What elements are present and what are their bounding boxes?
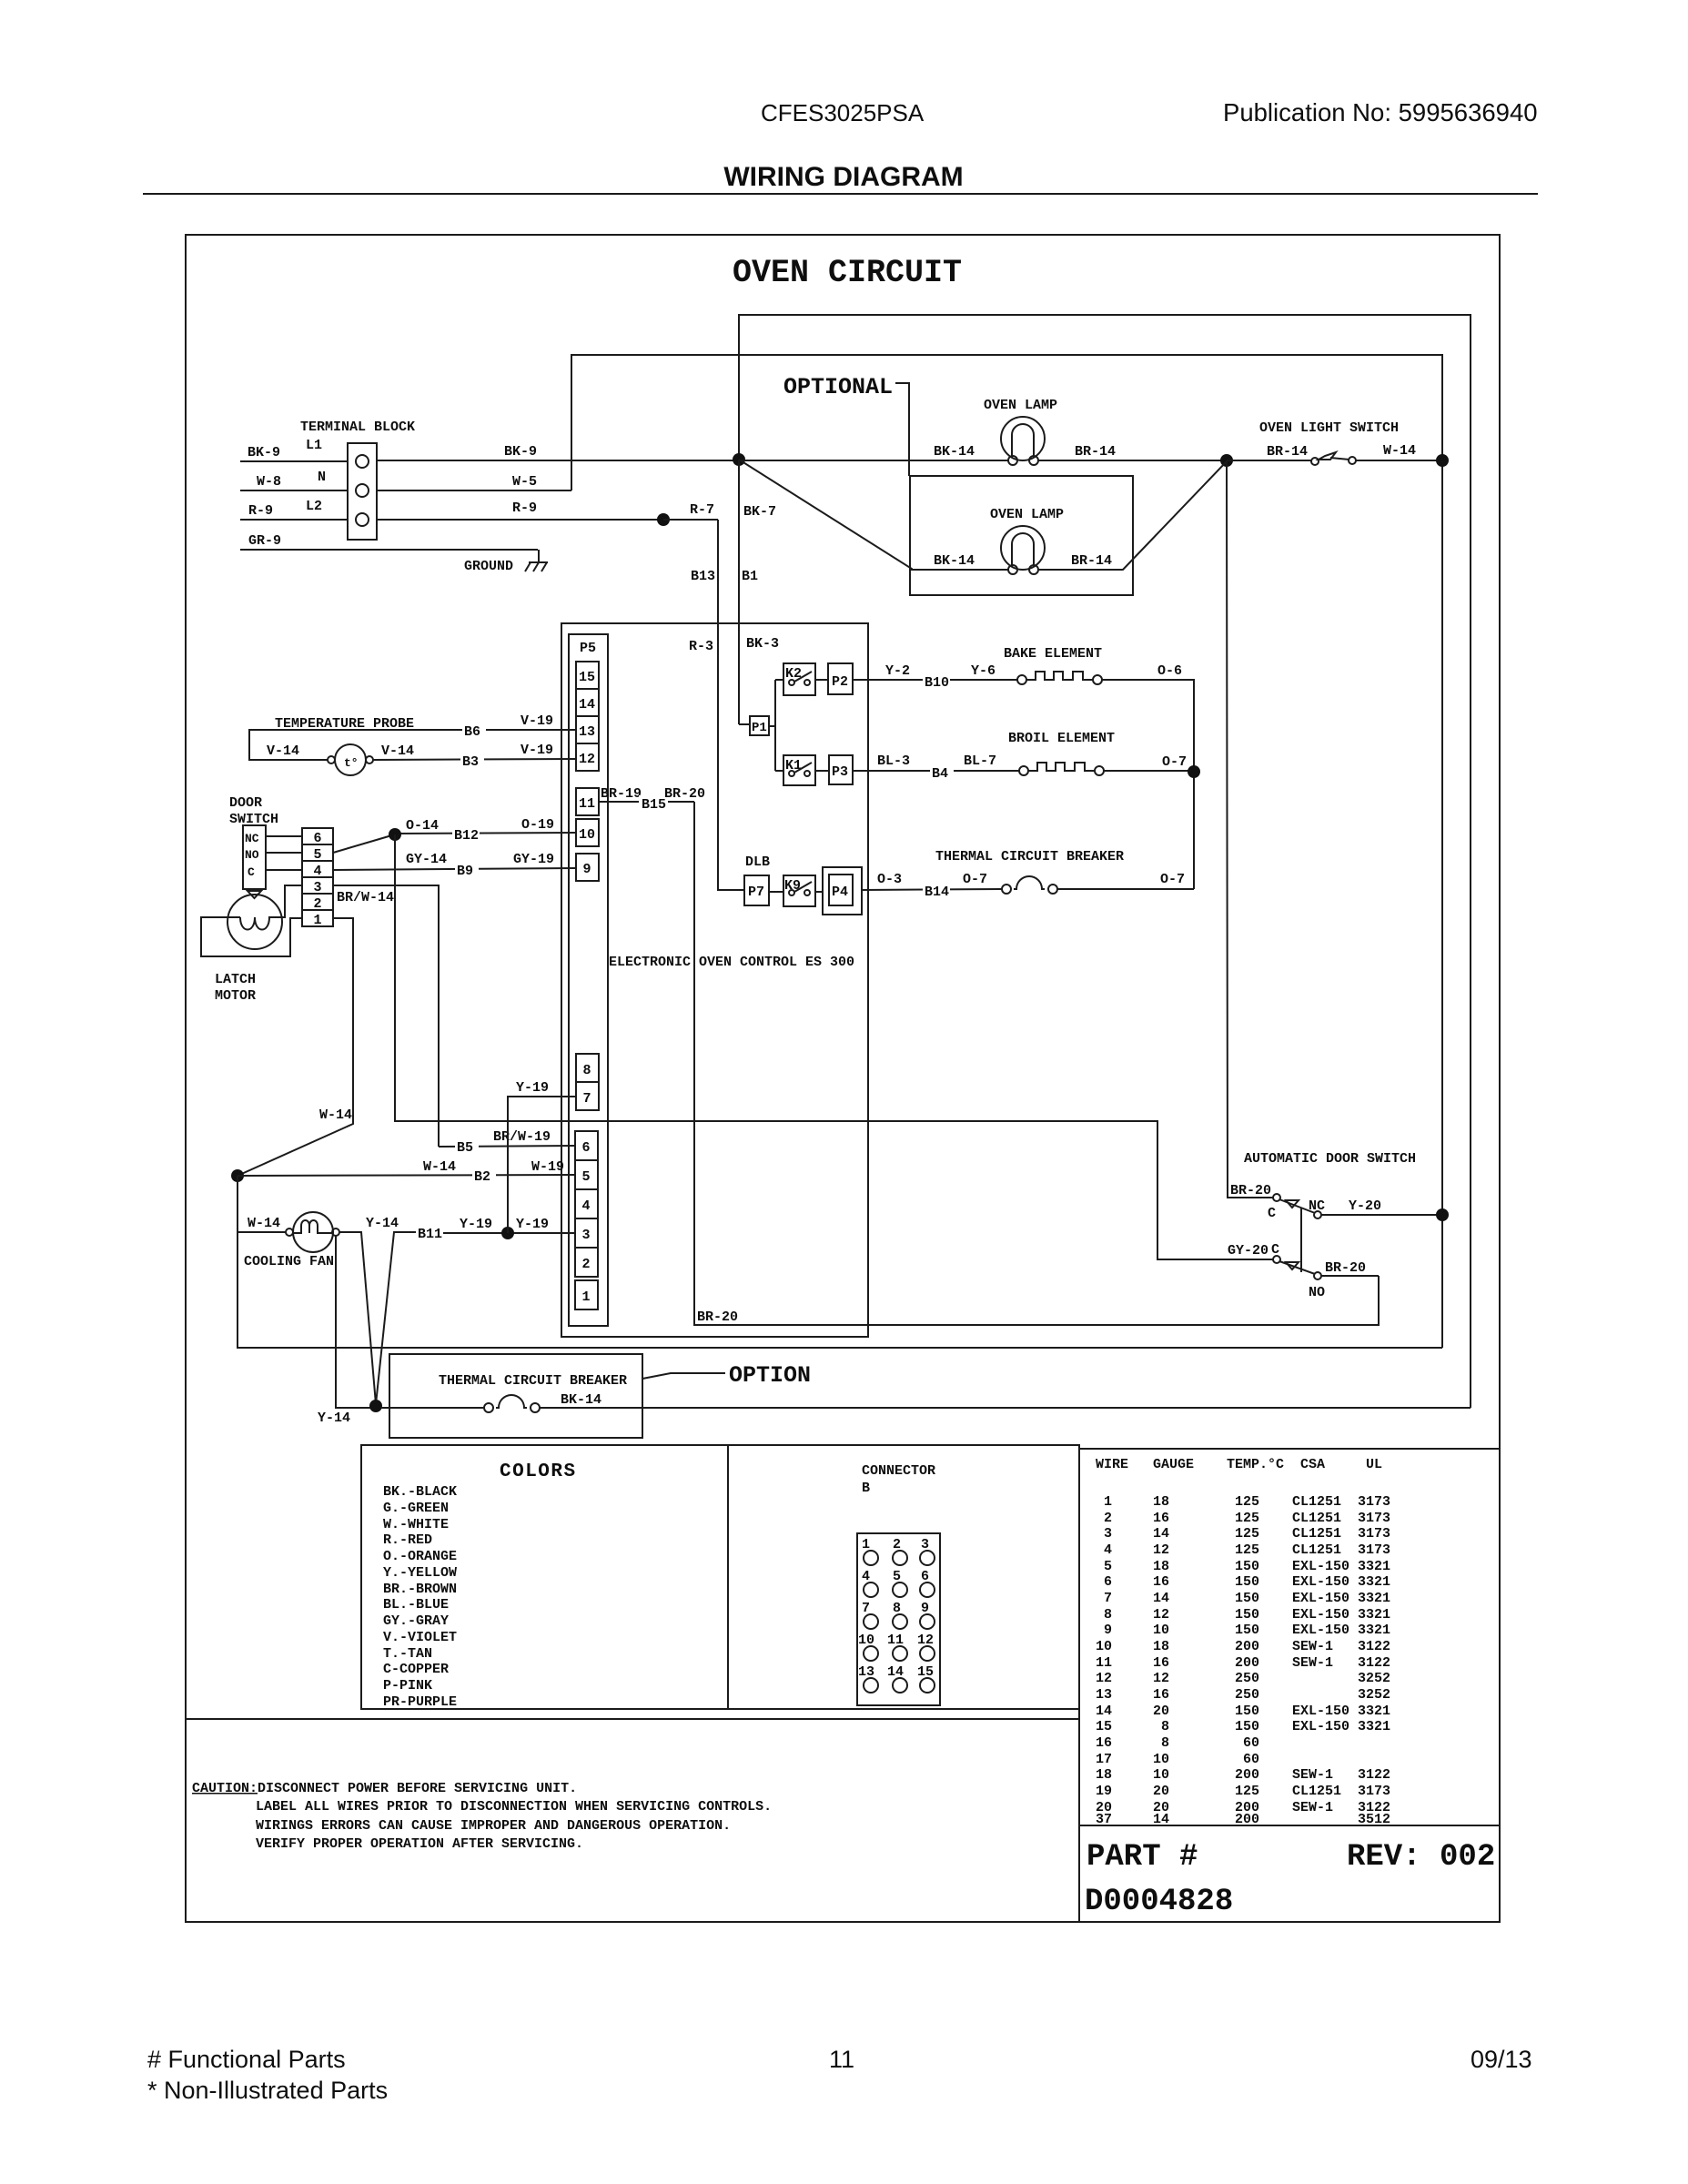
svg-text:R-9: R-9 [512,500,537,516]
svg-text:W-8: W-8 [257,474,281,490]
connector P4 [815,867,862,915]
wire O-3 B14 O-7 [862,872,1002,900]
P5 pin 1 [575,1280,598,1309]
node broil junction [1188,765,1200,778]
svg-text:W-14: W-14 [319,1107,352,1123]
svg-text:D0004828: D0004828 [1085,1885,1233,1919]
wire left vertical to bottom bus [238,1176,1442,1348]
svg-text:t°: t° [344,756,359,770]
svg-text:5: 5 [581,1169,590,1185]
wire B13 vertical [689,520,744,890]
wire O-14 vertical to GY-20 [395,834,1273,1259]
wire GY-14 to pin9 [333,852,576,879]
svg-text:BR-20: BR-20 [697,1309,738,1325]
wire Y-2 B10 Y-6 bake [853,663,1018,691]
svg-text:Y-19: Y-19 [516,1217,549,1232]
svg-text:TERMINAL BLOCK: TERMINAL BLOCK [300,420,415,435]
svg-text:R.-RED: R.-RED [383,1532,432,1548]
P5 pin 3 [575,1218,598,1248]
node W-14 junction [231,1169,244,1182]
wire fan to thermal breaker [318,1236,483,1426]
svg-text:GY-14: GY-14 [406,852,447,867]
page header publication number [1223,98,1538,126]
svg-text:B1: B1 [742,569,758,584]
svg-text:G.-GREEN: G.-GREEN [383,1501,449,1516]
P5 pin 7 [576,1082,599,1110]
svg-text:11: 11 [829,2046,854,2073]
relay K1 [775,755,815,785]
svg-text:1 18 125 CL1251: 1 18 125 CL1251 3173 [1096,1494,1390,1510]
svg-text:B2: B2 [474,1169,490,1185]
wire door C to pin4 [266,869,302,871]
svg-text:L2: L2 [306,499,322,514]
colors legend [383,1461,577,1710]
svg-text:17 10 60: 17 10 60 [1096,1752,1259,1767]
svg-text:14 20 150 EXL-15: 14 20 150 EXL-150 3321 [1096,1704,1390,1719]
svg-text:R-3: R-3 [689,639,713,654]
wire R-9 right [377,500,663,520]
bake element [1004,646,1102,684]
svg-text:GY.-GRAY: GY.-GRAY [383,1613,449,1629]
optional lamp box [910,476,1133,595]
svg-text:P1: P1 [752,721,767,735]
svg-text:COOLING FAN: COOLING FAN [244,1254,334,1269]
svg-text:2: 2 [581,1257,590,1272]
svg-text:V-14: V-14 [381,743,414,759]
svg-text:R-7: R-7 [690,502,714,518]
svg-text:O-19: O-19 [521,817,554,833]
wire R-7 [663,502,718,520]
wire B5 BR/W-19 to pin6 [439,1129,575,1156]
node thermal breaker junction [369,1400,382,1412]
svg-text:Y-6: Y-6 [971,663,996,679]
svg-text:LATCH: LATCH [215,972,256,987]
svg-text:15: 15 [579,670,595,685]
P5 pin 13 [576,716,599,743]
footer page number [829,2046,854,2073]
wire BK-7/B1 vertical [739,460,779,724]
svg-text:BR/W-14: BR/W-14 [337,890,394,905]
svg-text:PART #: PART # [1087,1840,1198,1875]
svg-text:16 8 60: 16 8 60 [1096,1735,1259,1751]
wire Y-19 to pin7 [508,1080,576,1233]
svg-text:CAUTION:DISCONNECT POWER BEFOR: CAUTION:DISCONNECT POWER BEFORE SERVICIN… [192,1781,577,1796]
wire breaker to inner box right [381,1407,1471,1409]
svg-text:P2: P2 [832,674,848,690]
svg-text:GY-20: GY-20 [1228,1243,1269,1259]
svg-text:WIRINGS ERRORS CAN CAUSE IMPRO: WIRINGS ERRORS CAN CAUSE IMPROPER AND DA… [256,1818,731,1834]
svg-text:BR-20: BR-20 [1230,1183,1271,1198]
svg-text:WIRING DIAGRAM: WIRING DIAGRAM [723,162,963,192]
svg-text:3 14 125 CL1251: 3 14 125 CL1251 3173 [1096,1526,1390,1542]
svg-text:BK-9: BK-9 [504,444,537,460]
P5 pin 4 [575,1189,598,1218]
wire O-6 [1102,663,1194,889]
P5 pin 11 [576,788,599,815]
svg-text:W-19: W-19 [531,1159,564,1175]
svg-text:B3: B3 [462,754,479,770]
svg-text:C-COPPER: C-COPPER [383,1662,449,1677]
svg-text:BROIL ELEMENT: BROIL ELEMENT [1008,731,1115,746]
svg-text:11: 11 [579,796,595,812]
P5 pin 8 [576,1054,599,1082]
caution note [192,1781,772,1852]
svg-text:BL-7: BL-7 [964,753,996,769]
svg-text:N: N [318,470,326,485]
svg-text:O-3: O-3 [877,872,902,887]
svg-text:DLB: DLB [745,854,770,870]
svg-text:Y-19: Y-19 [460,1217,492,1232]
svg-text:O-7: O-7 [1162,754,1187,770]
broil element [1008,731,1115,775]
svg-text:P3: P3 [832,764,848,780]
svg-text:GY-19: GY-19 [513,852,554,867]
svg-text:BK-3: BK-3 [746,636,779,652]
svg-text:K9: K9 [784,878,801,894]
P5 pin 9 [576,854,599,881]
svg-text:B11: B11 [418,1227,442,1242]
wire BR-14 lamp2 diagonal [1038,461,1227,570]
wire BK-9 left [240,445,348,461]
svg-text:PR-PURPLE: PR-PURPLE [383,1694,457,1710]
svg-text:AUTOMATIC DOOR SWITCH: AUTOMATIC DOOR SWITCH [1244,1151,1416,1167]
svg-text:13: 13 [579,724,595,740]
svg-text:V-19: V-19 [521,713,553,729]
svg-text:LABEL ALL WIRES PRIOR TO DISCO: LABEL ALL WIRES PRIOR TO DISCONNECTION W… [256,1799,772,1815]
svg-text:BL-3: BL-3 [877,753,910,769]
svg-text:B14: B14 [925,885,949,900]
svg-text:T.-TAN: T.-TAN [383,1646,432,1662]
svg-text:B13: B13 [691,569,715,584]
svg-text:Publication No: 5995636940: Publication No: 5995636940 [1223,98,1538,126]
wire BR-14 lamp1 [1038,444,1227,460]
svg-text:OVEN LAMP: OVEN LAMP [990,507,1064,522]
svg-text:B12: B12 [454,828,479,844]
ground [464,550,548,574]
wire BR-19 B15 BR-20 from pin11 [599,786,705,813]
svg-text:OPTION: OPTION [729,1362,811,1389]
node light switch to W-14 bus [1436,454,1449,467]
svg-text:W-14: W-14 [248,1216,280,1231]
node BK-9/BK-7 junction [733,453,745,466]
relay K9 [769,875,815,906]
svg-text:THERMAL CIRCUIT BREAKER: THERMAL CIRCUIT BREAKER [439,1373,627,1389]
cooling fan [238,1212,339,1269]
svg-text:BK-7: BK-7 [743,504,776,520]
svg-text:B4: B4 [932,766,948,782]
door switch connector pins 6-1 [302,828,333,928]
svg-text:12 12 250: 12 12 250 3252 [1096,1671,1390,1686]
section divider line [186,1718,1079,1720]
wire diagonal to optional lamp [739,460,1008,570]
wire O-7 broil to node [1104,754,1195,771]
svg-text:B15: B15 [642,797,666,813]
svg-text:CONNECTOR: CONNECTOR [862,1463,935,1479]
wire gauge table box [1079,1449,1500,1825]
connector P5 outline [569,634,608,1326]
temperature probe [249,713,576,775]
svg-text:B9: B9 [457,864,473,879]
svg-text:OVEN CIRCUIT: OVEN CIRCUIT [733,255,962,291]
wire B2 W-19 to pin5 [238,1159,575,1185]
svg-text:# Functional Parts: # Functional Parts [147,2046,346,2073]
svg-text:W-5: W-5 [512,474,537,490]
svg-text:P-PINK: P-PINK [383,1678,432,1694]
svg-text:2 16 125 CL1251: 2 16 125 CL1251 3173 [1096,1511,1390,1526]
svg-text:10: 10 [579,827,595,843]
wire B11 Y-19 to pin3 [416,1217,575,1242]
svg-text:OPTIONAL: OPTIONAL [783,374,893,400]
svg-text:6: 6 [581,1140,590,1156]
page title WIRING DIAGRAM [143,162,1538,194]
svg-text:O-14: O-14 [406,818,439,834]
wire door NC to pin6 [266,835,302,837]
wire Y-14 V to breaker junction [339,1216,416,1404]
wire W-14 latch pin1 vertical [238,918,353,1176]
svg-text:ELECTRONIC OVEN CONTROL ES 300: ELECTRONIC OVEN CONTROL ES 300 [609,955,854,970]
svg-text:V.-VIOLET: V.-VIOLET [383,1630,457,1645]
svg-text:V-14: V-14 [267,743,299,759]
wire inner loop top (W-5 box) [571,355,1442,1348]
svg-text:B: B [862,1481,870,1496]
svg-text:OVEN LAMP: OVEN LAMP [984,398,1057,413]
svg-text:9 10 150 EXL-150: 9 10 150 EXL-150 3321 [1096,1623,1390,1638]
svg-text:NO: NO [1309,1285,1325,1300]
svg-text:BR-20: BR-20 [1325,1260,1366,1276]
P5 pin 2 [575,1248,598,1277]
svg-text:GR-9: GR-9 [248,533,281,549]
svg-text:7: 7 [582,1091,591,1107]
svg-text:14: 14 [579,697,595,713]
svg-text:10 18 200 SEW-1: 10 18 200 SEW-1 3122 [1096,1639,1390,1654]
svg-text:18 10 200 SEW-1: 18 10 200 SEW-1 3122 [1096,1767,1390,1783]
thermal circuit breaker upper [935,849,1194,894]
wire O-14 to pin10 [333,817,576,853]
footer functional parts note [147,2046,388,2104]
automatic door switch lower NO [1228,1242,1379,1300]
node R-9/R-7 junction [657,513,670,526]
svg-text:11 16 200 SEW-1: 11 16 200 SEW-1 3122 [1096,1655,1390,1671]
node Y-20 junction [1436,1208,1449,1221]
page header model number [761,99,925,126]
oven lamp 1 [984,398,1057,465]
wire BL-3 B4 BL-7 broil [853,753,1020,782]
wire lamp junction down to auto door switch [1227,460,1273,1198]
wire W-8 [240,474,348,490]
svg-text:B6: B6 [464,724,480,740]
svg-text:W-14: W-14 [1383,443,1416,459]
svg-text:W.-WHITE: W.-WHITE [383,1517,449,1532]
svg-text:REV: 002: REV: 002 [1347,1840,1495,1875]
svg-text:B5: B5 [457,1140,473,1156]
electronic oven control box [561,623,868,1337]
svg-text:NO: NO [245,848,259,862]
svg-text:BR-14: BR-14 [1071,553,1112,569]
connector P3 [815,755,853,784]
connector P1 [750,680,775,771]
door switch [229,795,278,898]
svg-text:12: 12 [579,752,595,767]
svg-text:Y-2: Y-2 [885,663,910,679]
svg-text:Y-14: Y-14 [318,1410,350,1426]
svg-text:COLORS: COLORS [500,1461,577,1482]
svg-text:4: 4 [581,1198,590,1214]
part number box [1079,1825,1500,1922]
svg-text:NC: NC [245,832,259,845]
svg-text:P4: P4 [832,885,848,900]
svg-text:6 16 150 EXL-150: 6 16 150 EXL-150 3321 [1096,1574,1390,1590]
title OVEN CIRCUIT [733,255,962,291]
svg-text:1: 1 [313,913,321,928]
svg-text:CFES3025PSA: CFES3025PSA [761,99,925,126]
svg-text:8: 8 [582,1063,591,1078]
svg-text:BR-19: BR-19 [601,786,642,802]
wire gauge table [1096,1457,1390,1827]
svg-text:15 8 150 EXL-15: 15 8 150 EXL-150 3321 [1096,1719,1390,1734]
node O-14 junction [389,828,401,841]
svg-text:BAKE ELEMENT: BAKE ELEMENT [1004,646,1102,662]
wire door NO to pin5 [266,852,302,854]
oven light switch [1227,420,1442,465]
svg-text:8 12 150 EXL-150: 8 12 150 EXL-150 3321 [1096,1607,1390,1623]
latch motor [201,885,302,1004]
node Y-19 junction [501,1227,514,1239]
terminal block [300,420,415,540]
option thermal circuit breaker box [389,1354,642,1438]
svg-text:Y-19: Y-19 [516,1080,549,1096]
svg-text:1: 1 [581,1289,590,1305]
wire BK-14 lamp1 [739,444,1008,460]
svg-text:O-7: O-7 [963,872,987,887]
svg-text:9: 9 [582,862,591,877]
svg-text:09/13: 09/13 [1471,2046,1532,2073]
relay K2 [775,663,815,695]
P5 pin 14 [576,689,599,716]
svg-text:THERMAL CIRCUIT BREAKER: THERMAL CIRCUIT BREAKER [935,849,1124,864]
svg-text:R-9: R-9 [248,503,273,519]
P5 pin 6 [575,1131,598,1160]
svg-text:BR.-BROWN: BR.-BROWN [383,1582,457,1597]
svg-text:B10: B10 [925,675,949,691]
wire inner loop top (B1 box) [739,315,1471,1408]
svg-text:O.-ORANGE: O.-ORANGE [383,1549,457,1564]
svg-text:C: C [1268,1206,1276,1221]
DLB connector P7 [744,854,770,905]
svg-text:Y.-YELLOW: Y.-YELLOW [383,1565,457,1581]
svg-text:P5: P5 [580,641,596,656]
svg-text:W-14: W-14 [423,1159,456,1175]
node lamp junction [1220,454,1233,467]
connector B label [862,1463,935,1496]
wire BK-9 to junction [377,444,739,460]
svg-text:BL.-BLUE: BL.-BLUE [383,1597,449,1613]
svg-text:L1: L1 [306,438,322,453]
connector P2 [815,663,853,694]
wire BR-20 vertical to auto door switch NO [694,802,1379,1325]
relay bus from P1 [739,723,750,725]
svg-text:BR-20: BR-20 [664,786,705,802]
footer date [1471,2046,1532,2073]
wire W-5 [377,474,571,490]
automatic door switch [1230,1151,1442,1272]
svg-text:BK.-BLACK: BK.-BLACK [383,1484,457,1500]
svg-text:WIRE GAUGE TEMP.°C CSA: WIRE GAUGE TEMP.°C CSA UL [1096,1457,1382,1472]
svg-text:P7: P7 [748,885,764,900]
svg-text:Y-20: Y-20 [1349,1198,1381,1214]
svg-text:7 14 150 EXL-150: 7 14 150 EXL-150 3321 [1096,1591,1390,1606]
svg-text:BK-9: BK-9 [248,445,280,460]
svg-text:OVEN LIGHT SWITCH: OVEN LIGHT SWITCH [1259,420,1399,436]
svg-text:Y-14: Y-14 [366,1216,399,1231]
svg-text:GROUND: GROUND [464,559,513,574]
connector B grid [857,1533,940,1705]
svg-text:BK-14: BK-14 [934,444,975,460]
wire BR/W-14 from pin3 [333,885,439,1147]
svg-text:BR/W-19: BR/W-19 [493,1129,551,1145]
P5 pin 12 [576,743,599,771]
oven circuit frame [186,235,1500,1922]
svg-text:C: C [248,865,255,879]
wire R-9 left [240,503,348,520]
svg-text:5 18 150 EXL-150: 5 18 150 EXL-150 3321 [1096,1559,1390,1574]
svg-text:BK-14: BK-14 [934,553,975,569]
svg-text:O-6: O-6 [1157,663,1182,679]
svg-text:O-7: O-7 [1160,872,1185,887]
svg-text:DOOR: DOOR [229,795,262,811]
svg-text:VERIFY PROPER OPERATION AFTER: VERIFY PROPER OPERATION AFTER SERVICING. [256,1836,583,1852]
svg-text:13 16 250: 13 16 250 3252 [1096,1687,1390,1703]
P5 pin 15 [576,662,599,689]
svg-text:BR-14: BR-14 [1075,444,1116,460]
P5 pin 10 [576,819,599,846]
svg-text:BK-14: BK-14 [561,1392,601,1408]
P5 pin 5 [575,1160,598,1189]
colors legend box [361,1445,1079,1709]
svg-text:BR-14: BR-14 [1267,444,1308,460]
svg-text:3: 3 [581,1228,590,1243]
wire GR-9 [240,533,538,550]
oven lamp 2 [990,507,1064,574]
svg-text:4 12 125 CL1251: 4 12 125 CL1251 3173 [1096,1542,1390,1558]
svg-text:V-19: V-19 [521,743,553,758]
label OPTIONAL [783,374,909,476]
svg-text:* Non-Illustrated Parts: * Non-Illustrated Parts [147,2077,388,2104]
label OPTION pointer [642,1362,811,1389]
svg-text:MOTOR: MOTOR [215,988,256,1004]
svg-text:19 20 125 CL1251: 19 20 125 CL1251 3173 [1096,1784,1390,1799]
